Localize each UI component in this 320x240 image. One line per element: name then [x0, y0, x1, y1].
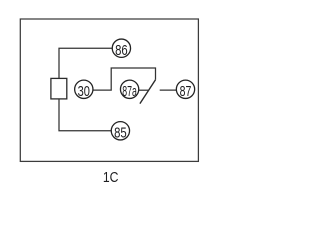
svg-text:30: 30 [78, 83, 90, 100]
svg-text:87a: 87a [122, 83, 137, 100]
wire: coil bottom to terminal 85 [59, 99, 111, 131]
svg-text:85: 85 [114, 125, 127, 142]
wire: 87a fixed contact tick [139, 89, 149, 91]
terminal 87a [120, 80, 138, 100]
terminal 87 [176, 80, 194, 100]
wire: terminal 86 to coil top [59, 48, 112, 78]
terminal 86 [112, 39, 130, 59]
svg-text:1C: 1C [103, 170, 119, 186]
terminal 85 [111, 122, 129, 142]
wire: terminal 30 to armature pivot [93, 68, 156, 90]
terminal 30 [75, 80, 93, 100]
svg-text:86: 86 [115, 42, 128, 59]
wire: terminal 87 stub [160, 89, 177, 91]
relay body outline [20, 19, 198, 161]
switch armature (movable contact) [140, 80, 156, 104]
coil (relay winding) [51, 78, 67, 99]
svg-text:87: 87 [180, 83, 192, 100]
